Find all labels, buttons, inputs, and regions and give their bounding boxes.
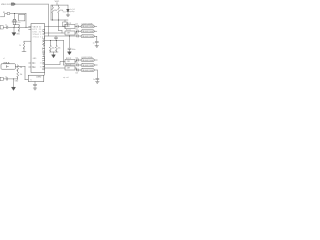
ground bottom left	[12, 87, 16, 90]
resistor RN3	[65, 59, 75, 63]
resistor RN2	[65, 31, 75, 35]
wire U1 row2 right	[45, 32, 65, 34]
inductor L1	[81, 25, 94, 28]
wire R2 drop	[59, 20, 62, 33]
svg-text:1u: 1u	[93, 79, 95, 81]
note text bottom	[63, 76, 69, 79]
svg-text:5V1: 5V1	[63, 11, 66, 13]
svg-text:FB 600R 100M: FB 600R 100M	[82, 36, 94, 38]
ground mid	[68, 52, 72, 55]
ground mid-low	[52, 55, 56, 58]
connector J2	[1, 64, 15, 69]
wire U1 row1 right	[45, 25, 65, 27]
node VBUS label	[1, 4, 11, 6]
wire J2 out	[15, 66, 28, 79]
svg-text:1u: 1u	[93, 42, 95, 44]
inductor L6	[81, 69, 94, 72]
svg-text:C14: C14	[75, 57, 78, 59]
svg-text:15k: 15k	[20, 67, 23, 69]
inductor L4	[81, 59, 94, 62]
node shield box	[0, 26, 3, 29]
svg-text:FB 600R 100M: FB 600R 100M	[82, 31, 94, 33]
capacitor C11	[76, 30, 81, 32]
wire U1 row bottom1	[45, 61, 65, 64]
capacitor C2	[15, 19, 17, 24]
svg-text:R12 22: R12 22	[66, 58, 71, 60]
capacitor C17	[96, 78, 99, 81]
svg-text:1k: 1k	[19, 45, 21, 47]
capacitor C18 series	[3, 78, 17, 81]
ground right top	[95, 46, 99, 48]
svg-text:15k: 15k	[20, 74, 23, 76]
ground bottom mid	[33, 88, 37, 90]
wire VBUS drop to U1	[47, 4, 49, 36]
svg-text:FB 600R 100M: FB 600R 100M	[82, 70, 94, 72]
wire Y1 to U1	[43, 72, 45, 75]
svg-text:DM2: DM2	[32, 67, 36, 69]
diode D1	[67, 5, 69, 9]
svg-text:15: 15	[40, 67, 42, 69]
svg-text:100n: 100n	[72, 49, 76, 51]
wire U1 bus y40.5	[45, 41, 77, 66]
capacitor C14	[76, 59, 81, 61]
svg-text:14: 14	[40, 63, 42, 65]
svg-text:C12: C12	[75, 34, 78, 36]
capacitor C3 series	[3, 26, 31, 29]
component box K1	[19, 14, 25, 21]
resistor RN1	[65, 24, 75, 28]
U1 pin labels	[32, 26, 41, 68]
capacitor C15	[76, 64, 81, 66]
U1 pins left	[29, 26, 31, 29]
resistor RN4	[65, 66, 75, 70]
resistor R5	[49, 41, 51, 53]
resistor R8	[17, 72, 19, 80]
wire cap branch	[13, 14, 15, 20]
resistor R2	[58, 5, 60, 20]
svg-text:12MHz: 12MHz	[36, 77, 42, 79]
wire lower rail	[51, 5, 68, 20]
capacitor C10	[76, 25, 81, 27]
U1 part name rotated	[41, 28, 45, 71]
op IC U1	[31, 24, 45, 73]
note text	[70, 9, 75, 13]
wire VBUS input step	[0, 14, 7, 17]
inductor L5	[81, 64, 94, 67]
capacitor C19	[33, 82, 37, 88]
resistor R7	[17, 65, 19, 72]
resistor R6	[55, 41, 57, 53]
wire L3 out	[94, 26, 97, 36]
capacitor C16	[76, 69, 81, 71]
svg-text:15k: 15k	[58, 48, 61, 50]
wire L6 out	[94, 60, 97, 70]
svg-text:C16: C16	[75, 73, 78, 75]
svg-text:F1: F1	[3, 12, 5, 14]
wire to ground 2	[13, 79, 15, 87]
wire VBUS top rail	[16, 3, 49, 5]
svg-text:C11: C11	[75, 29, 78, 31]
ground right bottom	[96, 81, 100, 83]
svg-text:C10: C10	[75, 24, 78, 26]
svg-text:C15: C15	[75, 62, 78, 64]
resistor R4	[22, 41, 26, 51]
wire VCC stub	[51, 3, 68, 6]
inductor L3	[81, 35, 94, 38]
wire U1 row3 right	[45, 35, 77, 37]
resistor R3	[16, 25, 20, 33]
svg-text:DP2: DP2	[32, 63, 35, 65]
svg-text:R10 22: R10 22	[66, 23, 71, 25]
wire U1 row bottom2	[45, 67, 65, 69]
capacitor C6 mid	[54, 36, 57, 41]
svg-text:FB 600R 100M: FB 600R 100M	[82, 65, 94, 67]
svg-text:1n: 1n	[5, 25, 7, 27]
wire to ground	[13, 27, 15, 32]
capacitor C12	[76, 35, 81, 37]
svg-text:XTAL1 5: XTAL1 5	[33, 33, 42, 36]
net arrow VBUS	[11, 3, 15, 5]
svg-text:FB 600R 100M: FB 600R 100M	[82, 26, 94, 28]
svg-text:FB 600R 100M: FB 600R 100M	[82, 60, 94, 62]
wire right drop bottom	[96, 70, 98, 78]
svg-text:15k: 15k	[54, 10, 57, 12]
node +5V label	[55, 1, 60, 3]
svg-text:1n: 1n	[5, 76, 7, 78]
svg-text:x1: x1	[3, 58, 5, 60]
capacitor C7 to ground	[68, 36, 71, 52]
svg-text:XTAL2 6: XTAL2 6	[33, 36, 42, 39]
svg-text:SL811HST-AXC U1: SL811HST-AXC U1	[41, 28, 45, 71]
wire ground rail	[49, 52, 58, 55]
capacitor C1	[12, 19, 14, 24]
capacitor C5 electrolytic	[63, 22, 68, 27]
svg-text:pullup: pullup	[70, 11, 75, 13]
ground	[12, 33, 16, 36]
svg-text:Y1: Y1	[30, 80, 32, 82]
svg-text:100n: 100n	[17, 22, 21, 24]
resistor R1	[52, 5, 54, 20]
svg-text:R13 22: R13 22	[66, 65, 71, 67]
crystal Y1 box	[28, 75, 44, 81]
wire right drop	[96, 36, 98, 41]
fuse F1 label	[3, 12, 5, 14]
svg-text:15k: 15k	[52, 48, 55, 50]
fuse F1	[7, 13, 10, 15]
svg-text:R11 22: R11 22	[66, 30, 71, 32]
connector J2 label	[3, 61, 10, 64]
inductor L2	[81, 30, 94, 33]
capacitor C13	[95, 41, 98, 45]
node shield box 2	[0, 77, 3, 80]
svg-text:VBUS 5V0: VBUS 5V0	[1, 4, 11, 6]
